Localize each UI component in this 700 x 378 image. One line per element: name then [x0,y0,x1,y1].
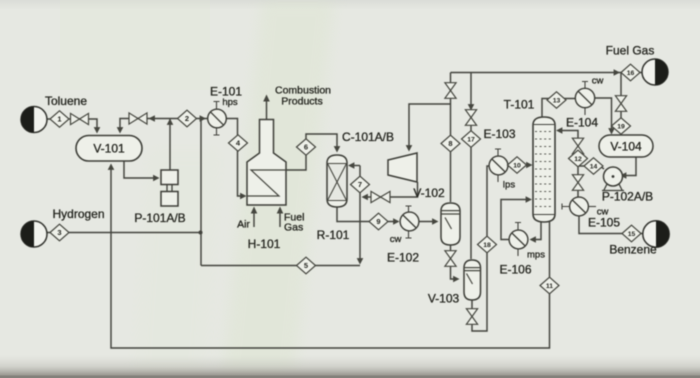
svg-text:7: 7 [358,180,362,189]
svg-text:cw: cw [592,76,604,87]
svg-text:R-101: R-101 [317,228,350,242]
node stream 2 [178,110,197,127]
node stream 8 [441,135,460,152]
wire C-101 discharge to quench valve [362,182,418,200]
off-page connector toluene feed [21,107,47,133]
svg-text:cw: cw [390,234,402,245]
vessel V-104 [599,135,653,157]
node stream 17 [462,131,481,148]
node stream 4 [229,135,248,151]
svg-text:14: 14 [590,164,598,171]
wire V-103 liquid to E-103 via stream 18 [472,166,489,331]
fired heater H-101 [247,120,286,206]
svg-text:10: 10 [513,163,521,170]
vessel V-101 [76,136,142,162]
svg-text:11: 11 [546,283,553,290]
node stream 19 [612,118,631,134]
node stream 12 [569,150,588,167]
wire fuel gas header [451,69,643,76]
heat exchanger E-106 [509,223,528,257]
svg-text:6: 6 [304,143,308,152]
node stream 15 [622,225,641,242]
heat exchanger E-103 [489,149,508,182]
wire C-101 suction [406,104,451,152]
wire toluene recycle stream 11 back to V-101 [108,164,550,349]
svg-text:E-104: E-104 [566,116,598,130]
node stream 14 [584,158,603,174]
svg-text:mps: mps [527,250,545,261]
valve on V-102 vapor purge [445,83,456,99]
node stream 18 [478,236,497,253]
svg-text:16: 16 [627,70,635,77]
wire toluene feed line to V-101 [47,119,100,134]
svg-text:P-101A/B: P-101A/B [134,211,185,225]
wire E-102 outlet to V-102 [419,218,439,225]
wire recycle gas return line stream 5 [201,265,360,267]
valve on V-104 vapor line [615,96,626,112]
wire quench into R-101 [348,162,360,169]
wire H-101 outlet stream 6 to R-101 [286,134,340,170]
heat exchanger E-104 [575,82,594,116]
wire E-104 outlet to V-104 [595,98,615,135]
svg-text:E-102: E-102 [387,251,419,265]
off-page connector fuel gas [642,59,668,85]
wire P-102 discharge to splitter [578,166,604,169]
wire P-101 discharge riser [167,119,174,171]
svg-text:V-101: V-101 [93,142,125,156]
wire recycle gas riser joining hydrogen [200,119,202,266]
svg-text:Hydrogen: Hydrogen [52,207,104,221]
svg-text:lps: lps [503,180,515,191]
valve on toluene feed [71,113,89,124]
svg-text:9: 9 [376,217,380,226]
svg-text:1: 1 [57,115,61,124]
wire main feed header stream 2 to E-101 [170,115,207,122]
svg-text:T-101: T-101 [504,98,535,112]
wire V-102 vapor riser stream 8 [450,73,452,203]
svg-text:H-101: H-101 [248,237,281,251]
svg-text:8: 8 [448,139,452,148]
svg-text:Fuel Gas: Fuel Gas [606,44,655,58]
off-page connector benzene [643,221,669,247]
wire V-103 vapor riser stream 17 [468,73,475,260]
wire combustion products stack [263,95,270,120]
pump P-101A/B [161,170,178,206]
svg-text:5: 5 [304,261,308,270]
svg-text:18: 18 [483,242,491,249]
wire V-104 liquid to P-102 [620,157,636,179]
svg-text:Products: Products [281,96,322,108]
node stream 10 [508,157,527,173]
svg-text:19: 19 [617,124,625,131]
wire E-103 outlet stream 10 to T-101 [508,162,533,169]
svg-text:P-102A/B: P-102A/B [602,190,653,204]
valve on reflux line [572,138,583,154]
reactor R-101 [327,155,347,207]
pump P-102A/B [602,167,624,191]
svg-text:Gas: Gas [284,222,303,234]
svg-text:15: 15 [628,231,636,238]
valve on benzene product line [572,175,583,191]
valve below V-102 [445,251,456,267]
wire pump spillback into V-101 [117,119,170,134]
svg-text:V-102: V-102 [413,186,445,200]
valve on V-103 vapor line [465,110,476,126]
wire hydrogen feed line [47,231,203,235]
svg-text:Toluene: Toluene [45,94,87,108]
heat exchanger E-105 [562,197,596,216]
svg-text:E-106: E-106 [499,263,531,277]
node stream 16 [621,64,640,81]
valve below V-103 [466,309,477,325]
heat exchanger E-102 [400,206,419,238]
svg-text:hps: hps [222,97,238,108]
wire V-102 liquid letdown to V-103 [451,245,460,282]
wire V-104 vapor to fuel gas header [620,73,622,136]
vessel V-102 [441,203,460,245]
valve on quench line [371,191,390,202]
svg-text:12: 12 [574,156,582,163]
node stream 3 [50,224,69,241]
node stream 11 [540,277,559,294]
node stream 5 [297,257,316,274]
wire air to H-101 [251,207,258,228]
svg-text:C-101A/B: C-101A/B [342,130,394,144]
wire P-101 suction from V-101 [124,161,160,181]
svg-text:3: 3 [57,228,61,237]
wire E-101 outlet to H-101 via stream 4 [227,119,247,200]
wire reboiler draw to E-106 [530,222,542,243]
off-page connector hydrogen feed [21,221,47,247]
node stream 6 [297,139,316,155]
svg-text:13: 13 [553,98,561,105]
svg-text:V-103: V-103 [428,292,460,306]
wire fuel gas to H-101 [277,207,284,228]
svg-text:Air: Air [237,219,250,231]
wire T-101 overhead stream 13 to E-104 [542,99,575,118]
node stream 7 [351,176,370,193]
svg-text:2: 2 [185,114,189,123]
wire reflux to T-101 [556,127,578,197]
vessel V-103 [464,260,481,300]
compressor C-101A/B [388,153,417,182]
svg-text:E-103: E-103 [483,127,515,141]
svg-text:E-105: E-105 [588,216,620,230]
tower T-101 [533,117,555,222]
wire reboiler return to T-101 [501,196,532,239]
svg-text:17: 17 [467,137,475,144]
svg-text:cw: cw [597,207,609,218]
svg-text:V-104: V-104 [610,140,642,154]
node stream 1 [50,111,69,127]
node stream 13 [547,92,566,108]
wire recycle gas vertical at reactor [357,166,364,265]
heat exchanger E-101 [208,102,227,136]
wire R-101 effluent to E-102 [337,207,400,225]
wire benzene product from E-105 [579,216,644,234]
svg-text:Benzene: Benzene [609,243,657,257]
valve on spillback line [129,113,155,124]
node stream 9 [369,213,388,230]
